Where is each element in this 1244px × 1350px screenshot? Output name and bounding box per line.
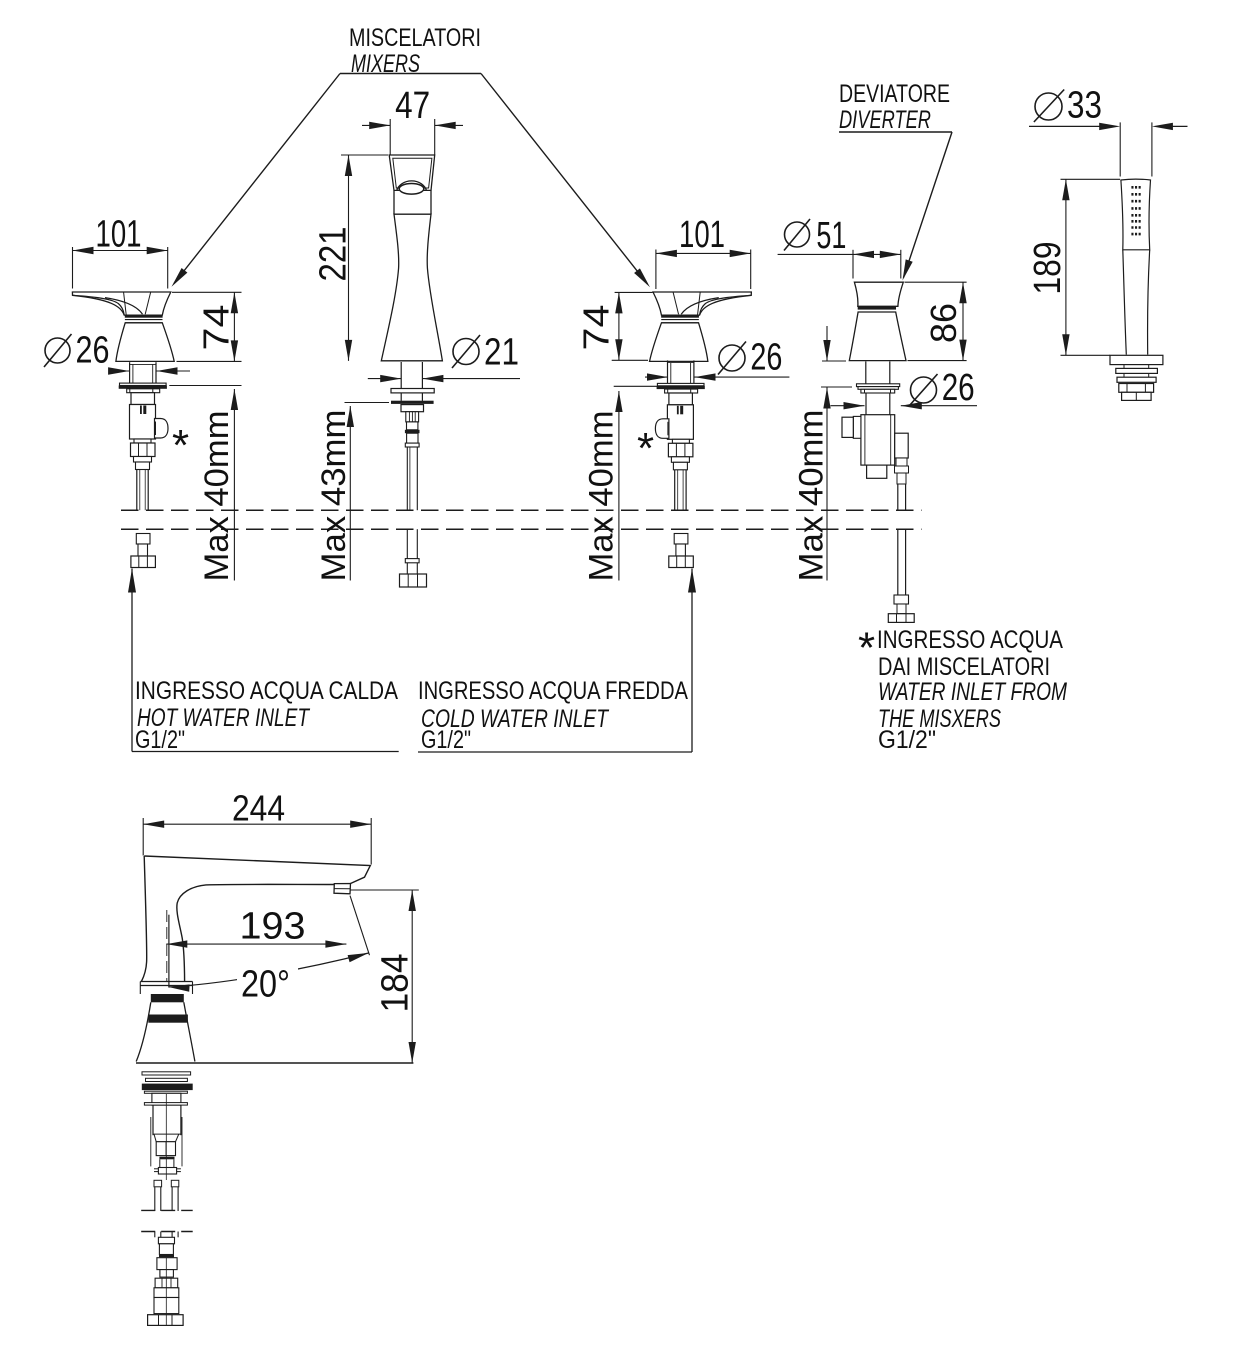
svg-text:184: 184	[375, 954, 417, 1013]
svg-text:21: 21	[484, 332, 519, 374]
svg-text:G1/2": G1/2"	[878, 726, 936, 754]
svg-text:*: *	[637, 424, 654, 473]
svg-text:MISCELATORI: MISCELATORI	[349, 24, 481, 52]
svg-text:Max 40mm: Max 40mm	[198, 411, 236, 582]
svg-text:Max 43mm: Max 43mm	[315, 410, 353, 582]
svg-text:G1/2": G1/2"	[135, 726, 185, 754]
svg-text:Max 40mm: Max 40mm	[793, 410, 831, 582]
svg-text:Max 40mm: Max 40mm	[583, 411, 621, 582]
svg-text:86: 86	[923, 303, 964, 343]
svg-text:74: 74	[576, 305, 617, 351]
svg-text:47: 47	[395, 85, 430, 127]
svg-text:26: 26	[76, 330, 110, 372]
svg-text:51: 51	[816, 215, 846, 257]
svg-text:*: *	[172, 421, 189, 470]
svg-text:101: 101	[679, 214, 725, 256]
svg-text:101: 101	[96, 214, 142, 256]
svg-text:221: 221	[313, 227, 355, 282]
svg-text:244: 244	[232, 788, 285, 829]
svg-text:26: 26	[750, 337, 782, 379]
svg-text:G1/2": G1/2"	[421, 726, 471, 754]
svg-text:INGRESSO ACQUA CALDA: INGRESSO ACQUA CALDA	[135, 677, 398, 705]
svg-text:WATER INLET FROM: WATER INLET FROM	[878, 678, 1067, 706]
svg-text:DAI MISCELATORI: DAI MISCELATORI	[878, 653, 1050, 681]
svg-text:DIVERTER: DIVERTER	[839, 106, 931, 134]
svg-text:26: 26	[942, 367, 975, 409]
svg-text:INGRESSO ACQUA: INGRESSO ACQUA	[877, 626, 1063, 654]
svg-text:74: 74	[196, 305, 237, 351]
svg-text:*: *	[858, 624, 875, 673]
svg-text:20°: 20°	[241, 964, 290, 1006]
svg-text:INGRESSO ACQUA FREDDA: INGRESSO ACQUA FREDDA	[418, 677, 688, 705]
svg-text:193: 193	[240, 906, 306, 948]
svg-text:33: 33	[1067, 85, 1102, 127]
svg-text:189: 189	[1027, 242, 1069, 295]
svg-text:DEVIATORE: DEVIATORE	[839, 80, 950, 108]
